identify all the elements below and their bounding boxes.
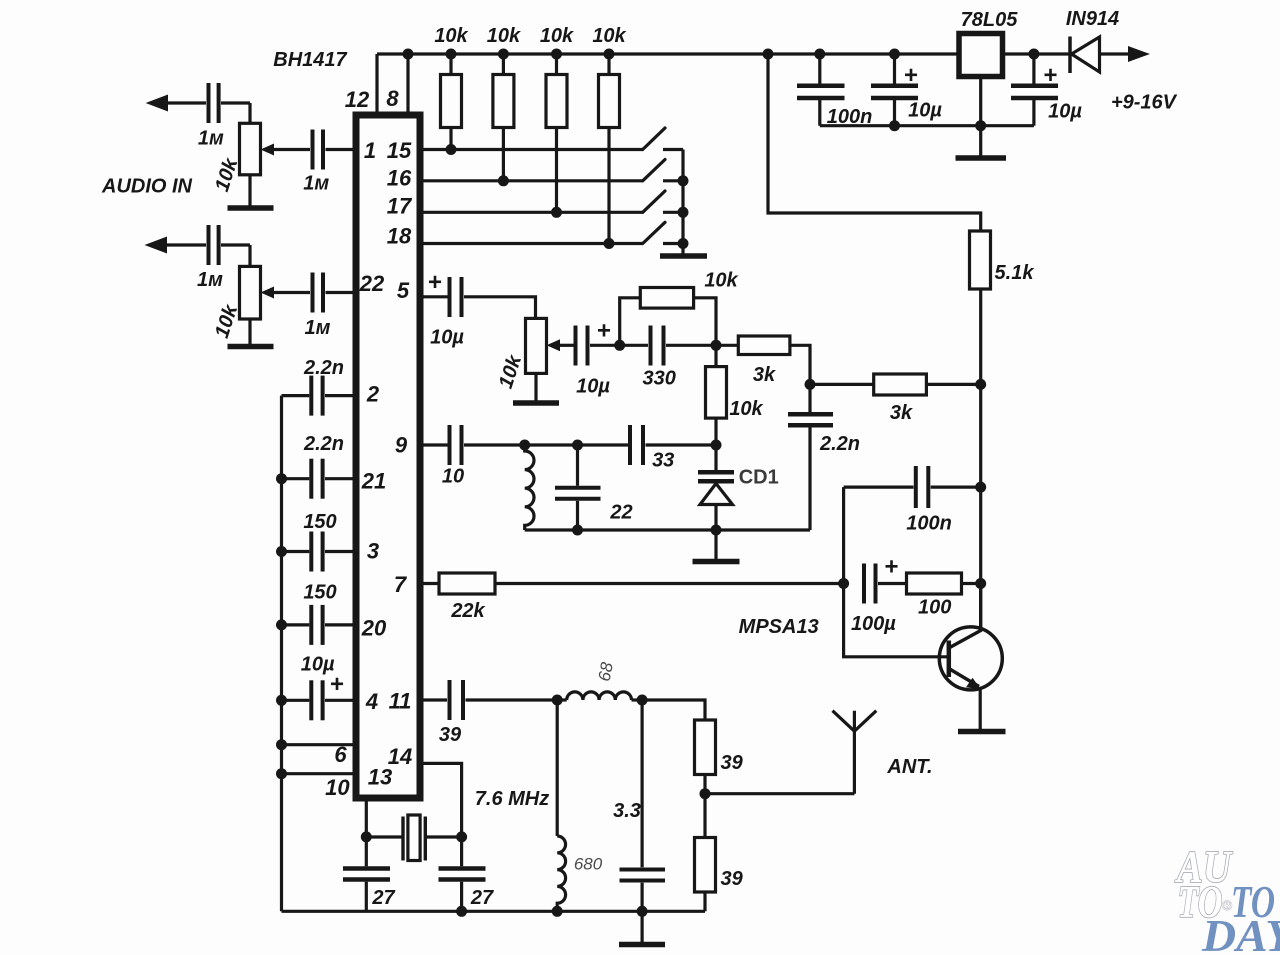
resistor R6 3k xyxy=(716,344,738,347)
node L1 top xyxy=(519,440,530,451)
node E base branch xyxy=(838,578,849,589)
wire bottom of tank xyxy=(525,528,810,531)
svg-text:10k: 10k xyxy=(487,25,521,47)
node bus pin20 xyxy=(276,619,287,630)
node C15 bottom xyxy=(572,525,583,536)
svg-text:2.2n: 2.2n xyxy=(303,433,344,455)
node rail L3 xyxy=(552,906,563,917)
resistor R8 3k xyxy=(810,383,874,386)
node bus pin6 xyxy=(276,739,287,750)
svg-text:21: 21 xyxy=(361,469,386,494)
svg-text:+: + xyxy=(884,554,898,581)
node rail R1 xyxy=(446,49,457,60)
resistor R4 10k xyxy=(607,54,610,75)
wire pin 14 xyxy=(420,763,462,837)
svg-text:10: 10 xyxy=(325,775,350,800)
svg-text:DAY: DAY xyxy=(1201,910,1280,955)
ground VR3 xyxy=(534,373,537,400)
svg-text:3.3: 3.3 xyxy=(613,800,641,822)
node bus pin4 xyxy=(276,695,287,706)
node rail R4 xyxy=(604,49,615,60)
capacitor C18 100n xyxy=(844,486,914,489)
node bus pin3 xyxy=(276,546,287,557)
svg-text:150: 150 xyxy=(303,511,336,533)
capacitor C6 2.2n pin21 xyxy=(282,477,310,480)
resistor R9 22k xyxy=(439,573,495,594)
capacitor C2 1m ch1 xyxy=(311,130,315,170)
svg-text:1м: 1м xyxy=(303,173,329,195)
crystal X1 7.6 MHz xyxy=(366,835,401,838)
node rail C21 xyxy=(1028,49,1039,60)
wire Vcc branch to 5.1k xyxy=(768,54,981,231)
svg-text:39: 39 xyxy=(439,724,462,746)
resistor R10 100 xyxy=(907,573,962,594)
capacitor C15 22 xyxy=(576,445,579,486)
capacitor C16 33 xyxy=(628,425,632,465)
resistor R5 10k feedback xyxy=(620,298,641,346)
capacitor C14 10 pin9 xyxy=(448,425,452,465)
svg-text:17: 17 xyxy=(387,194,413,219)
svg-text:15: 15 xyxy=(387,138,412,163)
node rail C20 xyxy=(889,49,900,60)
wire pin 5 xyxy=(421,295,448,298)
wire bottom rail xyxy=(282,910,706,913)
op-amp U1 IC BH1417 body xyxy=(356,115,420,798)
wire to antenna xyxy=(705,792,854,795)
svg-text:10k: 10k xyxy=(704,270,738,292)
resistor R1 10k xyxy=(449,54,452,75)
inductor L2 68 xyxy=(557,698,567,701)
ground switch bus xyxy=(660,253,707,259)
node X1 left xyxy=(361,831,372,842)
switch S4 xyxy=(643,222,665,243)
svg-text:10k: 10k xyxy=(729,398,763,420)
inductor L1 xyxy=(525,445,534,530)
capacitor C17 100u xyxy=(862,564,866,604)
node C15 top xyxy=(572,440,583,451)
wire pin 13 xyxy=(365,798,368,837)
node CD1 bottom xyxy=(711,525,722,536)
resistor R7 10k vertical xyxy=(714,345,717,366)
svg-text:18: 18 xyxy=(387,224,412,249)
node C18 5.1k line xyxy=(975,482,986,493)
node bottom U2 xyxy=(975,120,986,131)
node rail branch xyxy=(763,49,774,60)
wire pin 7 xyxy=(421,582,439,585)
node rail R3 xyxy=(551,49,562,60)
transistor Q1 MPSA13 xyxy=(939,627,1002,690)
svg-text:27: 27 xyxy=(470,887,494,909)
switch S2 xyxy=(643,160,665,181)
svg-text:680: 680 xyxy=(574,855,603,874)
node D junction pin9 xyxy=(711,440,722,451)
node H junction xyxy=(637,695,648,706)
node X1 right xyxy=(456,831,467,842)
node pin15 R1 xyxy=(446,144,457,155)
svg-text:330: 330 xyxy=(643,368,676,390)
svg-text:10µ: 10µ xyxy=(576,376,610,398)
ground VR1 xyxy=(248,175,251,206)
svg-text:8: 8 xyxy=(386,86,399,111)
capacitor C24 27 xyxy=(365,837,368,866)
switch S1 xyxy=(643,128,665,150)
node rail C23 xyxy=(637,906,648,917)
node pin18 R4 xyxy=(604,238,615,249)
svg-text:ANT.: ANT. xyxy=(886,756,932,778)
svg-text:IN914: IN914 xyxy=(1066,8,1119,30)
svg-text:10k: 10k xyxy=(592,25,626,47)
node rail C19 xyxy=(814,49,825,60)
ground CD1 xyxy=(693,559,740,565)
node G pin11 junction xyxy=(552,695,563,706)
capacitor C7 150 pin3 xyxy=(282,550,310,553)
inductor L3 680 xyxy=(556,700,559,836)
svg-text:MPSA13: MPSA13 xyxy=(739,616,819,638)
capacitor C10 10u pin5 xyxy=(448,277,452,317)
node bus pin10 xyxy=(276,768,287,779)
wire pin 12 to top rail xyxy=(375,54,378,115)
capacitor C11 10u wiper xyxy=(574,326,578,366)
capacitor C19 100n power xyxy=(818,54,821,84)
svg-text:3k: 3k xyxy=(890,402,913,424)
wire pin 11 xyxy=(421,698,447,701)
svg-text:11: 11 xyxy=(389,689,412,714)
node C junction xyxy=(805,379,816,390)
node rail C25 xyxy=(456,906,467,917)
svg-text:+: + xyxy=(330,671,344,698)
wire left bus xyxy=(280,396,283,912)
capacitor C22 39 pin11 xyxy=(448,680,452,720)
wire power bottom rail xyxy=(820,124,1034,127)
svg-text:16: 16 xyxy=(387,166,412,191)
audio input arrow ch2 xyxy=(145,237,168,254)
svg-text:2.2n: 2.2n xyxy=(303,357,344,379)
wire C18 left leg to base xyxy=(844,487,947,657)
svg-text:68: 68 xyxy=(595,660,617,682)
node R8 5.1k line xyxy=(975,379,986,390)
svg-text:20: 20 xyxy=(361,616,387,641)
capacitor C23 3.3 xyxy=(640,700,643,867)
svg-text:100: 100 xyxy=(918,597,951,619)
capacitor C4 1m ch2 xyxy=(311,273,315,313)
svg-text:14: 14 xyxy=(388,744,412,769)
node A junction xyxy=(614,340,625,351)
node bottom C20 xyxy=(889,120,900,131)
resistor R3 10k xyxy=(555,54,558,75)
resistor R2 10k xyxy=(502,54,505,75)
antenna ANT xyxy=(853,711,856,794)
node pin17 R3 xyxy=(551,207,562,218)
node junction pin8/rail xyxy=(403,49,414,60)
svg-text:39: 39 xyxy=(720,752,743,774)
wire U2 out xyxy=(1003,52,1069,55)
svg-text:AUDIO IN: AUDIO IN xyxy=(101,176,193,198)
svg-text:1м: 1м xyxy=(198,128,224,150)
node bus S4 xyxy=(678,238,689,249)
ground Q1 emitter xyxy=(979,687,982,729)
svg-text:6: 6 xyxy=(334,742,347,767)
svg-text:22: 22 xyxy=(359,271,385,296)
regulator U2 78L05 xyxy=(959,34,1003,77)
capacitor C13 2.2n xyxy=(808,384,811,412)
svg-text:3: 3 xyxy=(367,539,379,564)
potentiometer VR1 10k ch1 xyxy=(240,123,261,175)
node bus S2 xyxy=(678,175,689,186)
resistor R11 5.1k xyxy=(970,231,991,289)
svg-text:+: + xyxy=(597,318,611,345)
svg-text:5: 5 xyxy=(397,278,410,303)
svg-text:78L05: 78L05 xyxy=(961,9,1019,31)
audio input arrow ch1 xyxy=(146,95,168,112)
svg-text:9: 9 xyxy=(395,433,408,458)
varactor CD1 xyxy=(714,445,717,470)
svg-text:12: 12 xyxy=(345,87,370,112)
svg-text:2: 2 xyxy=(366,382,380,407)
svg-text:4: 4 xyxy=(365,689,378,714)
svg-text:22k: 22k xyxy=(450,600,485,622)
switch S3 xyxy=(643,191,665,212)
potentiometer VR3 10k xyxy=(526,318,547,373)
svg-text:3k: 3k xyxy=(753,364,776,386)
wire pin 10 xyxy=(282,772,357,775)
ground U2 xyxy=(979,77,982,156)
svg-text:22: 22 xyxy=(609,502,632,524)
svg-text:+9-16V: +9-16V xyxy=(1111,92,1178,114)
svg-text:5.1k: 5.1k xyxy=(995,262,1035,284)
capacitor C5 2.2n pin2 xyxy=(282,394,310,397)
svg-text:1: 1 xyxy=(364,138,376,163)
svg-text:+: + xyxy=(1043,62,1057,89)
svg-text:BH1417: BH1417 xyxy=(273,49,347,71)
wire switch bus xyxy=(681,150,684,254)
ground VR2 xyxy=(248,319,251,344)
wire pin 9 xyxy=(421,443,448,446)
capacitor C9 10u pin4 xyxy=(282,699,310,702)
svg-text:+: + xyxy=(428,269,442,296)
wire Vcc top rail xyxy=(377,52,959,55)
supply arrow xyxy=(1128,46,1150,62)
capacitor C12 330 xyxy=(649,326,653,366)
diode D1 IN914 xyxy=(1068,37,1072,74)
node bus S3 xyxy=(678,207,689,218)
node pin16 R2 xyxy=(498,175,509,186)
svg-text:100µ: 100µ xyxy=(851,613,896,635)
svg-text:10: 10 xyxy=(442,466,464,488)
svg-text:2.2n: 2.2n xyxy=(819,433,860,455)
wire pin 8 to top rail xyxy=(406,54,409,115)
svg-text:39: 39 xyxy=(720,868,743,890)
capacitor C21 10u power out xyxy=(1032,54,1035,84)
watermark AUTO-TODAY xyxy=(1174,841,1280,955)
ground antenna network xyxy=(640,911,643,942)
wire pin 6 xyxy=(282,743,357,746)
svg-text:CD1: CD1 xyxy=(739,466,779,488)
capacitor C1 1m ch1 xyxy=(207,83,211,123)
wire pin 16 xyxy=(421,179,643,182)
resistor R12 39 xyxy=(642,700,705,720)
svg-text:7: 7 xyxy=(394,572,408,597)
svg-text:7.6 MHz: 7.6 MHz xyxy=(475,788,549,810)
svg-text:1м: 1м xyxy=(305,317,331,339)
node F collector junction xyxy=(975,578,986,589)
svg-text:10k: 10k xyxy=(434,25,468,47)
capacitor C25 27 xyxy=(460,837,463,866)
svg-text:1м: 1м xyxy=(197,269,223,291)
svg-text:10µ: 10µ xyxy=(1048,101,1082,123)
svg-text:150: 150 xyxy=(303,582,336,604)
svg-text:10k: 10k xyxy=(540,25,574,47)
svg-text:33: 33 xyxy=(652,450,674,472)
node rail R2 xyxy=(498,49,509,60)
potentiometer VR2 10k ch2 xyxy=(240,266,261,319)
svg-text:+: + xyxy=(904,62,918,89)
resistor R13 39 xyxy=(703,794,706,838)
node I antenna junction xyxy=(700,788,711,799)
svg-text:10µ: 10µ xyxy=(430,327,464,349)
capacitor C8 150 pin20 xyxy=(282,623,310,626)
wire pin 18 xyxy=(421,242,643,245)
svg-text:100n: 100n xyxy=(906,513,952,535)
wire pin 17 xyxy=(421,211,643,214)
wire pin 15 xyxy=(421,148,643,151)
capacitor C20 10u power xyxy=(893,54,896,84)
svg-text:10µ: 10µ xyxy=(908,100,942,122)
svg-text:27: 27 xyxy=(371,887,395,909)
capacitor C3 1m ch2 xyxy=(207,225,211,265)
node bus pin21 xyxy=(276,473,287,484)
node B junction xyxy=(711,340,722,351)
